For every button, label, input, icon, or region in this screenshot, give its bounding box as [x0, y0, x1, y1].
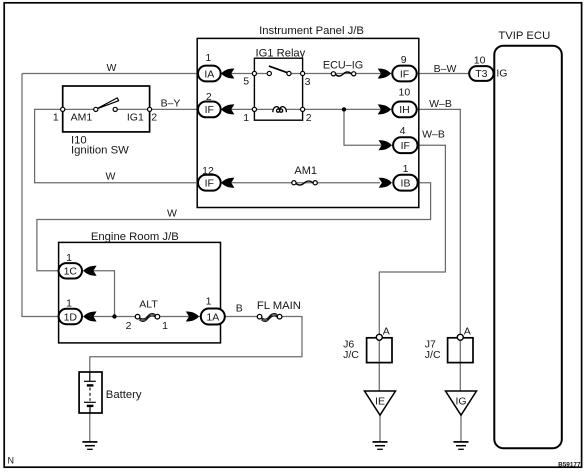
- svg-text:2: 2: [206, 91, 212, 103]
- svg-text:12: 12: [202, 165, 214, 177]
- svg-text:B59177: B59177: [558, 461, 581, 468]
- svg-text:Battery: Battery: [106, 389, 142, 401]
- svg-text:IG1 Relay: IG1 Relay: [256, 47, 306, 59]
- svg-text:A: A: [383, 326, 390, 338]
- svg-text:IG: IG: [496, 67, 507, 79]
- svg-text:IG: IG: [455, 395, 466, 407]
- svg-text:2: 2: [306, 112, 312, 124]
- svg-text:1: 1: [162, 320, 168, 332]
- svg-text:N: N: [8, 456, 15, 466]
- svg-text:AM1: AM1: [294, 165, 317, 177]
- svg-text:W–B: W–B: [429, 98, 452, 110]
- svg-text:1: 1: [53, 111, 59, 123]
- svg-text:AM1: AM1: [71, 112, 93, 124]
- svg-text:1: 1: [206, 295, 212, 307]
- svg-text:ECU–IG: ECU–IG: [323, 59, 363, 71]
- svg-text:B–Y: B–Y: [161, 98, 181, 110]
- svg-text:2: 2: [151, 111, 157, 123]
- svg-text:10: 10: [474, 54, 486, 66]
- svg-text:1: 1: [205, 52, 211, 64]
- svg-text:IG1: IG1: [127, 112, 144, 124]
- svg-text:IF: IF: [205, 178, 214, 190]
- svg-text:A: A: [464, 326, 471, 338]
- svg-text:10: 10: [399, 87, 411, 99]
- svg-text:3: 3: [305, 76, 311, 88]
- svg-text:B–W: B–W: [434, 63, 457, 75]
- svg-text:W–B: W–B: [422, 129, 445, 141]
- svg-text:1D: 1D: [64, 311, 78, 323]
- svg-text:W: W: [107, 62, 117, 74]
- svg-text:B: B: [236, 303, 243, 315]
- svg-text:IA: IA: [204, 68, 214, 80]
- svg-text:IE: IE: [375, 395, 385, 407]
- svg-text:1A: 1A: [206, 311, 219, 323]
- svg-text:1: 1: [66, 297, 72, 309]
- svg-text:IF: IF: [401, 140, 410, 152]
- svg-text:5: 5: [243, 75, 249, 87]
- svg-text:9: 9: [401, 54, 407, 66]
- svg-text:1: 1: [403, 163, 409, 175]
- svg-text:Ignition SW: Ignition SW: [71, 144, 129, 156]
- svg-text:J/C: J/C: [425, 349, 441, 361]
- svg-text:4: 4: [400, 125, 406, 137]
- svg-text:IF: IF: [400, 68, 409, 80]
- svg-text:IB: IB: [401, 178, 411, 190]
- svg-text:T3: T3: [475, 68, 487, 80]
- svg-text:W: W: [106, 171, 116, 183]
- svg-text:IF: IF: [205, 104, 214, 116]
- svg-text:1: 1: [66, 252, 72, 264]
- svg-text:FL MAIN: FL MAIN: [257, 300, 301, 312]
- svg-text:IH: IH: [399, 104, 410, 116]
- svg-text:Instrument Panel J/B: Instrument Panel J/B: [259, 25, 364, 37]
- svg-text:Engine Room J/B: Engine Room J/B: [91, 231, 179, 243]
- svg-text:TVIP ECU: TVIP ECU: [498, 30, 550, 42]
- svg-text:W: W: [167, 208, 177, 220]
- svg-text:ALT: ALT: [139, 299, 158, 311]
- svg-text:1: 1: [243, 112, 249, 124]
- svg-text:2: 2: [126, 320, 132, 332]
- svg-text:J/C: J/C: [343, 349, 359, 361]
- svg-text:1C: 1C: [64, 266, 78, 278]
